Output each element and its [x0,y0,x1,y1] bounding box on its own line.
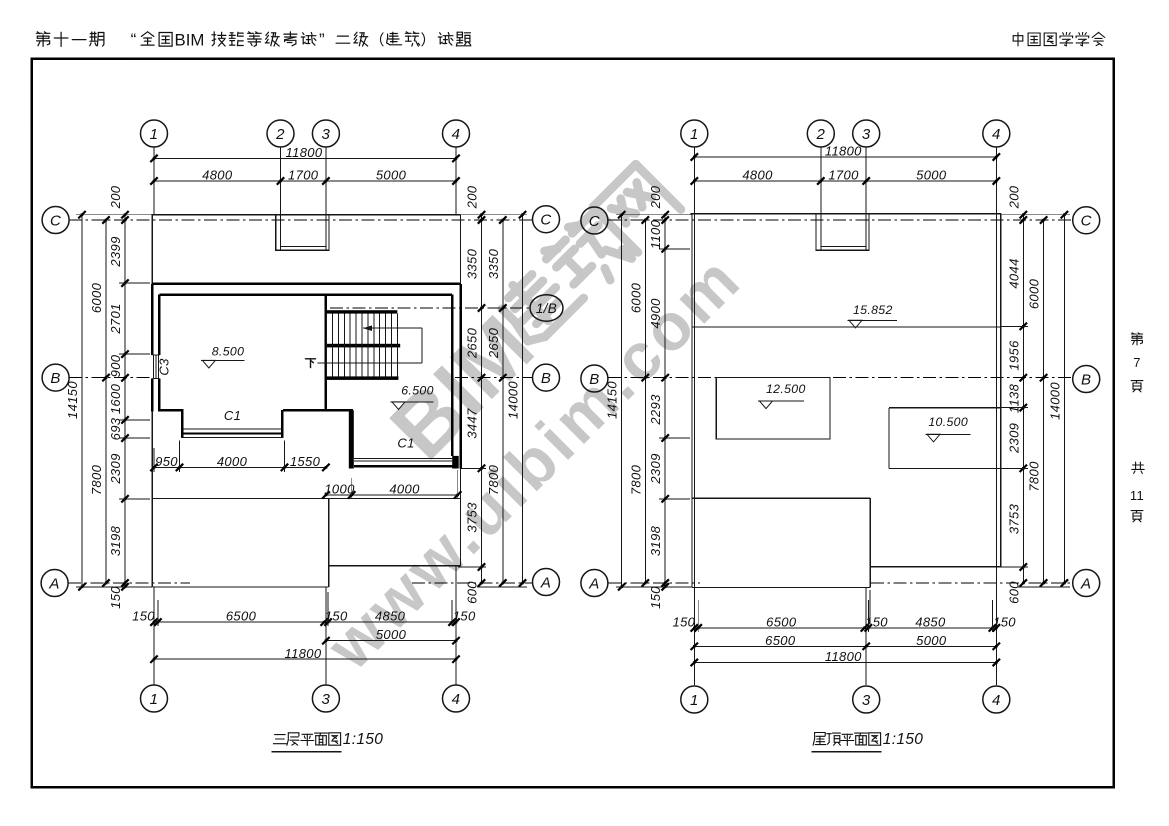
svg-text:2293: 2293 [648,394,663,426]
left plan window C1 bay verticals [181,410,184,437]
svg-text:3753: 3753 [465,502,480,533]
svg-text:C1: C1 [224,408,241,423]
left plan grid circle 1 bottom [141,685,168,712]
left plan grid circle C right [533,206,560,233]
right plan axis A dash-dot line [608,582,700,584]
svg-text:150: 150 [648,586,663,609]
svg-text:1: 1 [150,126,159,143]
svg-text:2: 2 [815,126,825,143]
svg-text:4000: 4000 [389,481,420,496]
svg-text:1138: 1138 [1006,383,1021,413]
svg-text:7800: 7800 [628,464,643,495]
right plan grid circle 3 bottom [853,686,880,713]
svg-text:5000: 5000 [916,633,947,648]
header org right [1013,33,1023,46]
svg-text:14000: 14000 [506,381,521,419]
right plan bottom dim row 11800 [694,662,996,664]
svg-text:4044: 4044 [1006,258,1021,288]
left plan left chain extension stubs [76,214,152,216]
svg-text:5000: 5000 [376,627,407,642]
right plan grid circle 3 top [853,120,880,147]
left plan stair middle bar [325,344,401,348]
svg-text:600: 600 [465,581,480,604]
svg-text:900: 900 [108,354,123,377]
right plan roof outline [691,213,1001,215]
left plan stair handrail loop and arrow [363,327,422,329]
svg-text:1: 1 [150,691,159,708]
left plan left dim chain 14150 [81,215,83,587]
left plan stairwell left wall [324,295,327,411]
left plan grid circle 1 top [141,120,168,147]
right plan left dim chain 14150 [621,215,623,587]
right plan roof rect 10.500 [889,407,1001,409]
left plan terrace lower-left rect [152,498,328,500]
svg-text:B: B [50,370,60,387]
svg-text:C: C [1081,213,1092,230]
left plan axis 1/B dash-dot line [330,307,530,309]
svg-text:8.500: 8.500 [212,345,245,359]
svg-text:（: （ [370,32,385,49]
svg-text:7800: 7800 [1027,461,1042,492]
svg-text:4850: 4850 [915,614,946,629]
left plan right chain extension stubs [461,214,527,216]
svg-text:1: 1 [690,692,699,709]
left plan bottom dim row 150 6500 150 4850 150 [154,621,456,623]
svg-text:1600: 1600 [108,383,123,414]
svg-text:14150: 14150 [65,381,80,419]
left plan roof edge verticals upper [151,215,153,284]
svg-text:6000: 6000 [89,282,104,313]
right plan grid circle 1 top [681,120,708,147]
left plan grid circle B right [533,364,560,391]
svg-text:693: 693 [108,417,123,440]
svg-text:7: 7 [1133,355,1141,370]
svg-text:C3: C3 [157,358,172,376]
right plan bottom dim row 6500 5000 [694,645,996,647]
left plan top dim row 4800 1700 5000 [154,180,456,182]
left plan bottom window C1 wall jambs [349,410,354,468]
right plan top dim row 4800 1700 5000 [694,180,996,182]
left plan grid circle B left [42,364,69,391]
left plan grid circle 1/B right [530,295,563,321]
svg-text:2701: 2701 [108,303,123,334]
svg-text:1100: 1100 [648,219,663,249]
svg-text:11800: 11800 [825,649,862,664]
svg-text:6500: 6500 [765,633,796,648]
svg-text:1:150: 1:150 [883,731,924,748]
left plan bottom dim row 5000 [326,640,456,642]
svg-text:150: 150 [453,609,476,624]
svg-text:C: C [589,213,600,230]
left plan terrace lower-right rect [329,565,461,567]
svg-text:A: A [1080,575,1091,592]
svg-text:4000: 4000 [217,454,248,469]
right plan axis C dash-dot line [608,219,1072,221]
left plan bottom window C1 lines [354,457,454,459]
svg-text:2399: 2399 [108,236,123,267]
svg-text:6.500: 6.500 [401,383,434,397]
right plan axis B dash-dot line [608,377,1072,379]
svg-text:4800: 4800 [742,167,773,182]
svg-text:1000: 1000 [324,481,355,496]
svg-text:11800: 11800 [286,145,323,160]
svg-text:14150: 14150 [605,381,620,419]
svg-text:4900: 4900 [648,298,663,329]
right plan grid circle 4 top [983,120,1010,147]
right plan right dim chain 14000 [1063,215,1065,583]
left plan right dim chain 14000 [522,215,524,583]
right plan stair bulkhead rect above C [816,214,869,251]
svg-text:4: 4 [452,691,461,708]
svg-text:C: C [50,212,61,229]
svg-text:“: “ [131,30,137,49]
svg-text:150: 150 [132,609,155,624]
right plan left dim chain detail segments [664,215,666,587]
left plan grid circle 4 top [443,120,470,147]
svg-text:5000: 5000 [376,167,407,182]
left plan right dim chain 3350 2650 7800 [502,220,504,583]
svg-text:5000: 5000 [916,167,947,182]
svg-text:2650: 2650 [465,327,480,359]
right plan grid circle C left [581,207,608,234]
svg-text:1:150: 1:150 [343,731,384,748]
svg-text:15.852: 15.852 [853,303,893,317]
left plan stair top bar [327,310,398,313]
right plan grid extension lines top [693,147,695,214]
left plan roof edge top [152,214,461,216]
svg-text:2: 2 [275,126,285,143]
right plan right dim chain detail segments [1022,215,1024,583]
left plan right dim chain detail segments [481,215,483,583]
svg-text:11800: 11800 [285,646,322,661]
right plan right dim chain 6000 7800 [1043,220,1045,583]
svg-text:200: 200 [648,185,663,209]
svg-text:4: 4 [992,126,1001,143]
left plan axis B dash-dot line [69,377,152,379]
left plan grid circle A left [41,570,68,597]
svg-text:4850: 4850 [375,609,406,624]
left plan grid extension lines top [153,147,155,215]
left plan axis C dash-dot line [69,219,532,221]
svg-text:A: A [540,574,551,591]
left plan bottom dim row 11800 [154,658,456,660]
svg-text:600: 600 [1006,581,1021,604]
svg-text:200: 200 [1006,185,1021,209]
right plan roof ridge line 15.852 [692,326,1001,328]
svg-text:A: A [588,575,599,592]
svg-text:7800: 7800 [89,464,104,495]
svg-text:3198: 3198 [108,525,123,556]
svg-text:4: 4 [992,692,1001,709]
left plan roof edge left lower [151,411,153,587]
left plan dim row 950 4000 1550 [154,466,326,468]
right plan bottom dim row 150 6500 150 4850 150 [694,627,996,629]
svg-text:C: C [540,212,551,229]
left plan outer wall left [151,284,154,355]
svg-text:3447: 3447 [465,408,480,439]
svg-text:6000: 6000 [1027,278,1042,309]
svg-text:3: 3 [322,691,331,708]
right plan grid circle A left [581,570,608,597]
svg-text:11: 11 [1130,488,1144,503]
svg-text:12.500: 12.500 [766,382,806,396]
svg-text:1700: 1700 [288,167,319,182]
svg-text:3753: 3753 [1006,503,1021,534]
right plan grid circle A right [1073,570,1100,597]
svg-text:150: 150 [993,614,1016,629]
left plan left dim chain detail segments [124,215,126,587]
right plan grid circle 2 top [807,120,834,147]
left plan axis A dash-dot line [68,582,190,584]
svg-text:1: 1 [690,126,699,143]
svg-text:3: 3 [322,126,331,143]
svg-text:10.500: 10.500 [928,415,968,429]
right plan right chain extension stubs [1001,214,1070,216]
right plan caption wu ding ping mian tu 1:150 [813,733,826,746]
svg-text:”: ” [319,30,325,49]
svg-text:6500: 6500 [226,609,257,624]
watermark BIM jianzhuwang diagonal text [373,298,552,477]
svg-text:）: ） [421,32,436,49]
svg-text:1700: 1700 [828,167,859,182]
left plan grid circle 3 top [312,120,339,147]
svg-text:11800: 11800 [825,144,862,159]
left plan roof edge right lower [460,468,462,565]
left plan stair bottom bar [327,376,399,380]
svg-text:2309: 2309 [108,453,123,484]
left plan inner wall top [159,293,452,296]
svg-text:3350: 3350 [465,248,480,279]
left plan outer wall right [459,284,462,469]
left plan grid circle A right [533,569,560,596]
left plan label xia down [305,359,315,368]
page number right [1131,333,1142,345]
left plan window C3 [152,354,159,356]
svg-text:2309: 2309 [648,453,663,484]
svg-text:3198: 3198 [648,525,663,556]
left plan inner wall right [451,295,454,456]
left plan stair treads [326,314,328,377]
left plan bottom wall of room 8.500 [158,409,183,412]
svg-text:BIM: BIM [175,30,205,49]
svg-text:7800: 7800 [486,464,501,495]
svg-text:B: B [589,371,599,388]
svg-text:3: 3 [862,692,871,709]
svg-text:1/B: 1/B [536,301,557,316]
svg-text:2309: 2309 [1006,423,1021,454]
svg-text:6000: 6000 [628,282,643,313]
right plan left chain extension stubs [616,214,692,216]
svg-text:14000: 14000 [1047,382,1062,420]
right plan grid circle B left [581,365,608,392]
svg-text:4: 4 [452,126,461,143]
right plan grid circle 4 bottom [983,686,1010,713]
svg-text:B: B [541,370,551,387]
svg-text:4800: 4800 [202,167,233,182]
left plan top dim row 11800 [154,157,456,159]
right plan grid extension lines bottom [693,587,695,684]
svg-text:150: 150 [673,614,696,629]
left plan stair bulkhead rect above C [276,215,329,251]
left plan left dim chain 6000 7800 [105,220,107,583]
svg-text:C1: C1 [397,436,414,451]
svg-text:3350: 3350 [486,248,501,279]
svg-text:200: 200 [108,185,123,209]
right plan grid circle 1 bottom [681,686,708,713]
left plan bottom short extension lines [157,600,159,626]
right plan bottom short extension lines [697,600,699,632]
left plan grid circle 4 bottom [443,685,470,712]
right plan grid circle C right [1073,207,1100,234]
watermark www.uibim.com [312,240,755,683]
svg-text:150: 150 [108,586,123,609]
right plan top dim row 11800 [694,156,996,158]
svg-text:B: B [1081,371,1091,388]
right plan roof rect 12.500 [716,378,830,439]
svg-text:3: 3 [862,126,871,143]
svg-text:200: 200 [465,185,480,209]
svg-text:950: 950 [155,454,178,469]
left plan window C1 top lines [183,428,282,430]
left plan inner wall left [158,295,161,355]
left plan grid circle C left [42,207,69,234]
right plan grid verticals inside roof [693,214,695,588]
left plan dim row 1000 4000 [326,494,458,496]
left plan grid circle 2 top [267,120,294,147]
left plan caption san ceng ping mian tu 1:150 [273,735,286,744]
watermark CJK jian zhu wang [492,256,583,347]
svg-text:1956: 1956 [1006,340,1021,371]
left plan outer wall top [152,283,461,286]
svg-text:6500: 6500 [766,614,797,629]
svg-text:1550: 1550 [290,454,321,469]
left plan grid extension lines bottom [153,587,155,685]
left plan grid circle 3 bottom [312,685,339,712]
header title left [36,32,50,47]
svg-text:A: A [48,575,59,592]
right plan grid circle B right [1073,366,1100,393]
svg-text:2650: 2650 [486,327,501,359]
right plan left dim chain 6000 7800 [644,220,646,583]
